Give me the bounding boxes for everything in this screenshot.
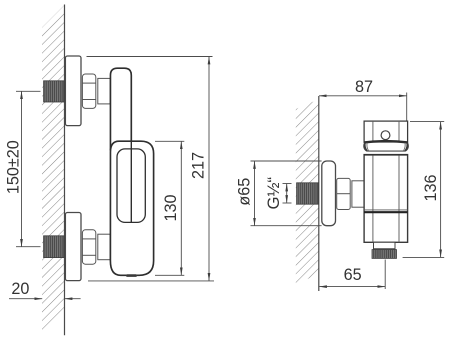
svg-text:130: 130 [162,194,180,221]
svg-text:20: 20 [11,280,29,298]
svg-text:217: 217 [190,152,208,179]
svg-text:ø65: ø65 [236,178,254,206]
svg-text:65: 65 [344,266,362,284]
svg-text:G½“: G½“ [264,177,283,210]
svg-text:136: 136 [422,174,440,201]
svg-text:87: 87 [355,78,373,96]
svg-text:150±20: 150±20 [5,140,23,194]
